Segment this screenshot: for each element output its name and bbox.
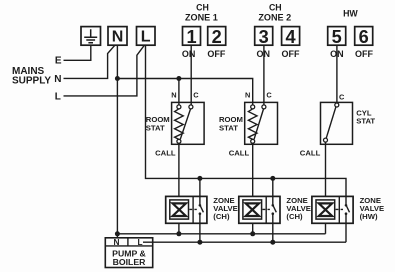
terminal box L: [137, 27, 156, 46]
wire ZV3 switch to boiler live rail: [345, 223, 347, 242]
ZV1 divider: [192, 196, 194, 223]
cyl stat switch blade: [326, 107, 336, 139]
ZV2 divider: [265, 196, 267, 223]
RS2 switch blade: [254, 109, 263, 139]
svg-text:CH: CH: [269, 3, 282, 13]
wire neutral bottom rail: [117, 233, 325, 235]
room stat RS1: [172, 102, 205, 144]
wire mains L to terminal L: [64, 45, 145, 96]
wire mains N to terminal N: [64, 45, 115, 78]
junction ZV2 live: [270, 240, 275, 245]
svg-text:L: L: [55, 92, 61, 103]
label ROOM STAT 1: [146, 115, 170, 133]
junction ZV1 live: [197, 240, 202, 245]
svg-text:1: 1: [186, 27, 196, 47]
RS1 terminal N: [177, 105, 181, 109]
RS1 terminal call: [177, 139, 181, 143]
wire ZV2 motor neutral: [252, 223, 254, 234]
svg-text:3: 3: [259, 27, 269, 47]
programmer terminal 4: [282, 27, 300, 47]
wire ZV3 motor neutral: [325, 223, 327, 234]
earth symbol: [84, 29, 97, 42]
RS1 terminal C: [189, 105, 193, 109]
svg-text:ZONE 1: ZONE 1: [185, 12, 218, 22]
ZV3 motor-switch link: [336, 208, 343, 210]
wire terminal 3 to room stat 2 C: [263, 45, 265, 105]
wire E (earth lead from mains): [64, 45, 91, 60]
wire boiler live rail: [143, 241, 346, 243]
junction N rail / stat 1: [176, 76, 181, 81]
wire room stat 1 neutral feed: [178, 79, 180, 106]
svg-text:6: 6: [359, 27, 369, 47]
svg-text:(HW): (HW): [360, 212, 378, 221]
svg-text:2: 2: [212, 27, 222, 47]
RS1 heater zigzag: [175, 109, 184, 140]
svg-text:OFF: OFF: [355, 49, 373, 59]
svg-text:N: N: [114, 237, 120, 247]
ZV3 valve bowtie: [319, 203, 332, 216]
svg-text:SUPPLY: SUPPLY: [12, 76, 51, 87]
ZV1 end switch: [199, 196, 201, 223]
label ZONE VALVE (CH) 1: [213, 196, 238, 221]
wire cyl call to ZV3 motor: [325, 142, 327, 196]
svg-text:CALL: CALL: [229, 148, 250, 157]
svg-text:BOILER: BOILER: [113, 257, 147, 267]
wire RS2 call to ZV2 motor: [252, 143, 254, 196]
ZV1 motor-switch link: [189, 208, 196, 210]
ZV3 divider: [338, 196, 340, 223]
svg-text:STAT: STAT: [219, 124, 238, 133]
svg-text:N: N: [112, 28, 124, 45]
svg-text:E: E: [55, 56, 62, 67]
svg-text:ROOM: ROOM: [146, 115, 170, 124]
label ROOM STAT 2: [219, 115, 243, 133]
RS2 terminal call: [251, 139, 255, 143]
label ZONE VALVE (CH) 2: [286, 196, 311, 221]
wire ZV2 switch to boiler live rail: [272, 223, 274, 242]
svg-text:CALL: CALL: [300, 149, 321, 158]
ZV2 end switch: [272, 196, 274, 223]
zone valve ZV1: [166, 196, 207, 223]
wire live drop from terminal L and live rail to valve switches: [146, 45, 347, 196]
svg-text:L: L: [137, 237, 142, 247]
cyl stat terminal call: [324, 138, 328, 142]
svg-text:4: 4: [286, 27, 297, 47]
svg-text:5: 5: [332, 27, 342, 47]
programmer terminal 3: [255, 27, 273, 47]
svg-text:ROOM: ROOM: [219, 115, 243, 124]
ZV2 motor-switch link: [263, 208, 270, 210]
wire ZV1 motor neutral: [178, 223, 180, 234]
zone valve ZV3: [312, 196, 353, 223]
room stat RS2: [245, 102, 278, 144]
ZV2 valve bowtie: [246, 203, 259, 216]
RS2 terminal C: [262, 105, 266, 109]
svg-text:N: N: [245, 90, 250, 99]
zone valve ZV2: [239, 196, 280, 223]
junction N rail / terminal N: [115, 76, 120, 81]
svg-text:OFF: OFF: [207, 49, 225, 59]
wire ZV1 switch to boiler live rail: [199, 223, 201, 242]
wire ZV2 switch feed: [272, 178, 274, 196]
svg-text:(CH): (CH): [286, 212, 303, 221]
svg-text:OFF: OFF: [282, 49, 300, 59]
junction pump neutral: [115, 231, 120, 236]
wire terminal 5 to cyl stat C: [336, 45, 338, 103]
svg-text:STAT: STAT: [146, 124, 165, 133]
terminal box E (earth): [81, 27, 101, 46]
RS2 heater zigzag: [248, 109, 257, 140]
programmer terminal 5: [328, 27, 346, 47]
wire terminal 1 to room stat 1 C: [190, 45, 192, 105]
ZV1 valve bowtie: [173, 203, 186, 216]
ZV3 valve square: [316, 200, 335, 219]
junction live rail / ZV1 switch: [197, 176, 202, 181]
wire RS1 call to ZV1 motor: [178, 143, 180, 196]
svg-text:(CH): (CH): [213, 212, 230, 221]
label ZONE VALVE (HW): [360, 196, 385, 221]
label MAINS SUPPLY: [12, 66, 51, 87]
svg-text:C: C: [266, 90, 272, 99]
RS1 switch blade: [180, 109, 190, 139]
svg-text:ON: ON: [182, 49, 196, 59]
svg-text:N: N: [171, 90, 176, 99]
svg-text:C: C: [339, 92, 345, 101]
pump and boiler box: [105, 237, 152, 268]
wire neutral drop from terminal N to bottom rail: [116, 45, 118, 238]
terminal box N: [108, 27, 127, 46]
svg-text:CALL: CALL: [155, 148, 176, 157]
ZV3 end switch: [345, 196, 347, 223]
wire neutral rail to room stats: [117, 79, 252, 106]
RS2 terminal N: [251, 105, 255, 109]
wire ZV1 switch feed: [199, 178, 201, 196]
cyl stat terminal C: [335, 103, 339, 107]
svg-text:N: N: [54, 74, 61, 85]
ZV2 valve square: [243, 200, 262, 219]
label CYL STAT: [356, 108, 375, 125]
ZV1 valve square: [170, 200, 189, 219]
programmer terminal 1: [183, 27, 201, 47]
svg-text:C: C: [193, 90, 199, 99]
junction live rail / ZV2 switch: [270, 176, 275, 181]
svg-text:HW: HW: [343, 8, 358, 18]
svg-text:ZONE 2: ZONE 2: [258, 12, 291, 22]
svg-text:STAT: STAT: [356, 117, 375, 126]
programmer terminal 6: [355, 27, 373, 47]
svg-text:L: L: [141, 28, 151, 45]
svg-text:CH: CH: [196, 3, 209, 13]
junction ZV2 neutral: [250, 231, 255, 236]
cylinder stat: [321, 102, 353, 144]
junction ZV1 neutral: [176, 231, 181, 236]
programmer terminal 2: [208, 27, 226, 47]
